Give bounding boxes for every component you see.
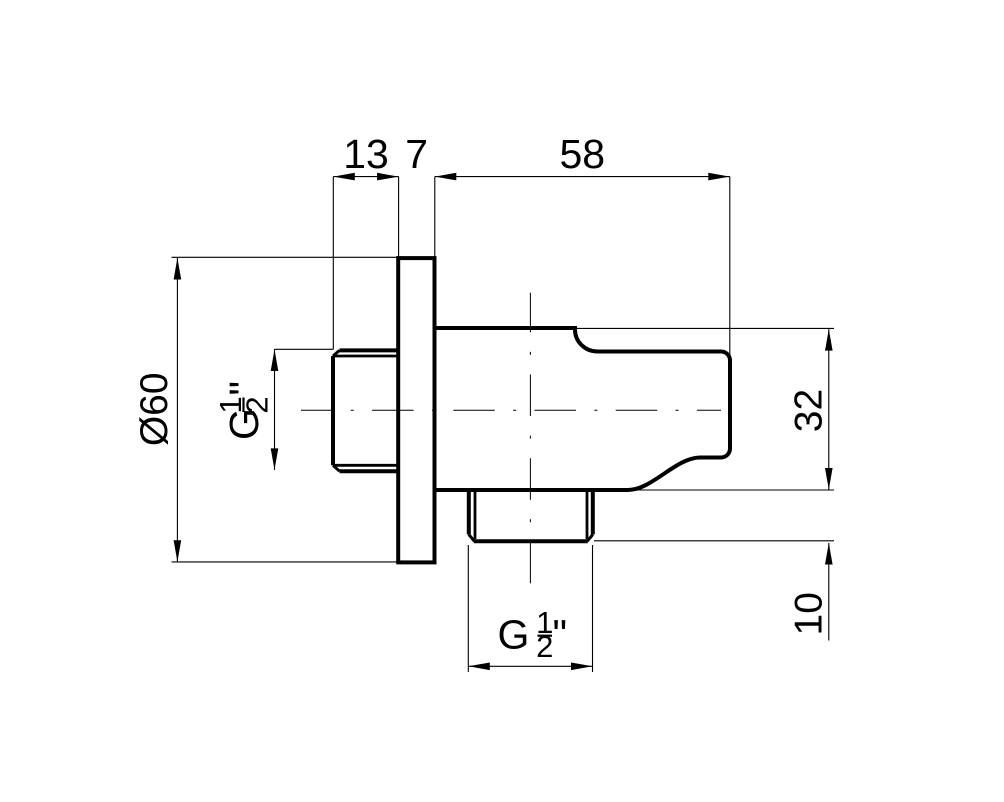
dim 10: dimension line tail	[828, 543, 830, 641]
svg-text:7: 7	[405, 131, 428, 177]
dim D60: value text	[133, 372, 176, 446]
svg-text:2: 2	[536, 629, 553, 664]
dim 58: arrow right	[708, 173, 730, 181]
left inlet thread boss: thread line top	[333, 355, 398, 358]
svg-text:10: 10	[788, 592, 831, 635]
dim G1/2 bottom: arrow right	[571, 663, 593, 671]
left inlet chamfer bottom	[333, 465, 340, 471]
dim G1/2 left: dimension line	[274, 349, 276, 470]
svg-text:Ø60: Ø60	[133, 372, 176, 446]
dim D60: bottom extension line	[172, 561, 399, 563]
wall plate (flange)	[398, 258, 434, 562]
dim D60: dimension line	[176, 258, 178, 562]
dim G1/2 bottom: left extension line	[467, 545, 469, 672]
svg-text:58: 58	[559, 131, 605, 177]
dim 10: extension line	[594, 540, 834, 542]
svg-text:32: 32	[788, 389, 831, 432]
dim 13: dimension line	[333, 176, 398, 178]
svg-text:2: 2	[240, 396, 275, 413]
dim 13: arrow left	[333, 173, 355, 181]
dim D60: top extension line	[172, 256, 399, 258]
left inlet thread boss: outer bottom edge	[340, 469, 399, 473]
dim G1/2 bottom: right extension line	[592, 545, 594, 672]
bottom outlet boss: right thread line	[586, 492, 589, 539]
svg-text:13: 13	[343, 131, 389, 177]
svg-text:": "	[221, 381, 267, 396]
dim G1/2 left: arrow up	[271, 350, 279, 372]
left inlet thread boss: thread line bottom	[333, 464, 398, 467]
dim 13: left extension line	[332, 177, 334, 350]
dim 10: value text	[788, 592, 831, 635]
dim G1/2 left: label	[213, 381, 275, 440]
dim 13/7: shared extension line	[398, 177, 400, 259]
dim 32: value text	[788, 389, 831, 432]
dim 32: bottom extension line	[630, 489, 834, 491]
bottom outlet boss: right outer edge	[591, 492, 595, 535]
dim 58: right extension line	[729, 177, 731, 356]
dim G1/2 bottom: dimension line	[468, 665, 592, 667]
dim 58: dimension line	[435, 176, 730, 178]
left inlet chamfer top	[333, 350, 340, 356]
dim G1/2 bottom: arrow left	[468, 663, 490, 671]
dim 32: arrow up	[825, 329, 833, 351]
dim 32: dimension line	[828, 329, 830, 489]
vertical centerline	[529, 293, 531, 585]
dim 32: top extension line	[574, 327, 834, 329]
body outline	[435, 328, 731, 490]
bottom outlet boss: left thread line	[474, 492, 477, 539]
dim 58: arrow left	[435, 173, 457, 181]
dim G1/2 left: arrow down	[271, 448, 279, 470]
dim 32: arrow down	[825, 468, 833, 490]
horizontal centerline	[301, 409, 721, 411]
dim G1/2 bottom: label	[498, 605, 568, 664]
bottom outlet boss: left outer edge	[467, 492, 471, 535]
dim D60: arrow up	[174, 258, 182, 280]
dim 58: left extension line	[434, 177, 436, 259]
bottom outlet chamfer right	[587, 535, 593, 542]
left inlet thread boss: outer top edge	[340, 348, 399, 352]
bottom outlet chamfer left	[469, 535, 475, 542]
dim D60: arrow down	[174, 540, 182, 562]
dim G1/2 left: top extension line	[275, 348, 334, 350]
dim 13: arrow right	[377, 173, 399, 181]
bottom outlet boss: bottom face	[474, 539, 588, 543]
svg-text:": "	[553, 612, 568, 658]
left inlet thread boss: left end face	[331, 356, 335, 465]
dim 10: arrow up	[825, 543, 833, 565]
svg-text:G: G	[498, 612, 530, 658]
